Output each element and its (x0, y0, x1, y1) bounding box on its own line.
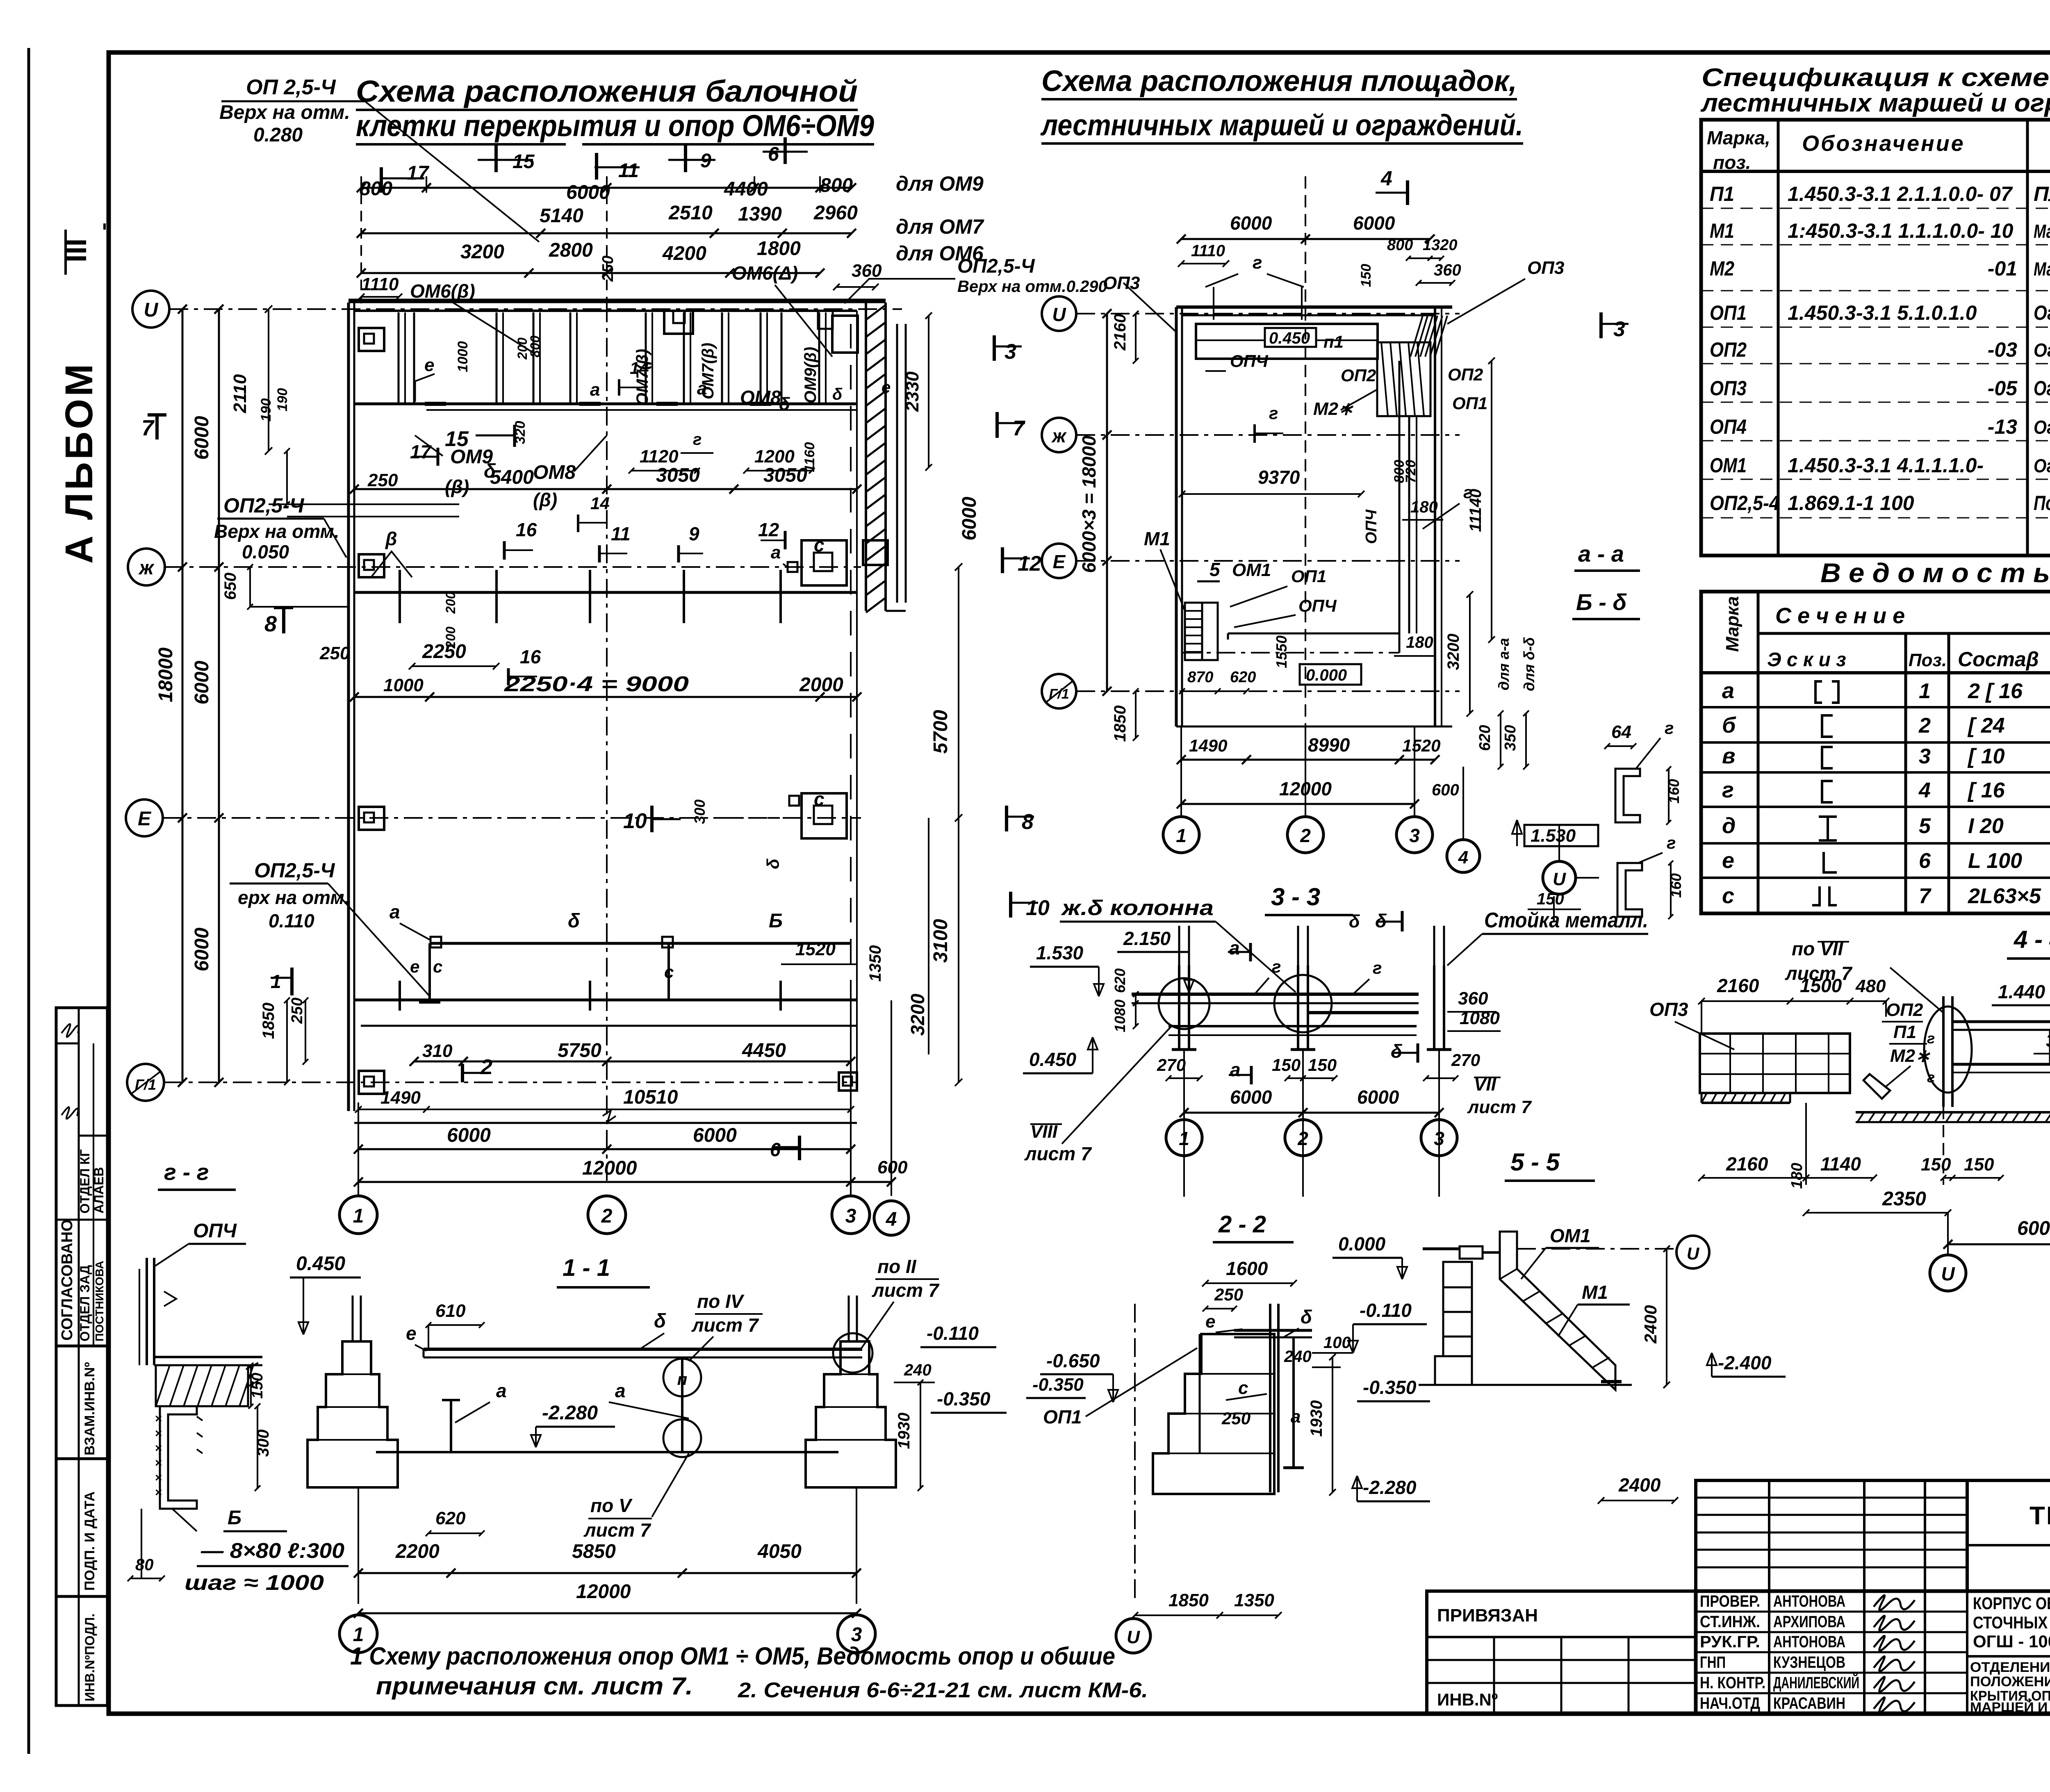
svg-text:(β): (β) (445, 476, 469, 497)
right wall hatched strip (865, 303, 867, 611)
svg-text:ОП1: ОП1 (1710, 301, 1747, 324)
stamp box ПОДП. И ДАТА (56, 1459, 107, 1596)
svg-text:П1: П1 (1710, 182, 1734, 205)
svg-text:Е: Е (138, 808, 152, 830)
svg-text:Б - δ: Б - δ (1576, 589, 1627, 615)
svg-text:для а-а: для а-а (1495, 638, 1512, 690)
svg-text:150: 150 (1272, 1055, 1301, 1075)
svg-text:1390: 1390 (738, 203, 782, 225)
svg-text:для ОМ9: для ОМ9 (896, 172, 984, 195)
svg-text:U: U (1052, 304, 1066, 325)
stair М1 lower left (1185, 603, 1202, 660)
svg-text:АНТОНОВА: АНТОНОВА (1773, 1592, 1845, 1610)
svg-text:1: 1 (353, 1205, 364, 1227)
svg-text:11140: 11140 (1467, 489, 1485, 532)
svg-text:КРАСАВИН: КРАСАВИН (1773, 1694, 1845, 1712)
svg-text:360: 360 (852, 261, 882, 281)
svg-text:г: г (1665, 718, 1674, 738)
svg-text:[ 24: [ 24 (1967, 714, 2005, 738)
girder under top bay (354, 403, 857, 405)
svg-text:3: 3 (1919, 745, 1931, 768)
svg-text:200: 200 (443, 592, 458, 614)
svg-text:270: 270 (1157, 1055, 1186, 1075)
svg-text:0.450: 0.450 (1029, 1049, 1077, 1070)
svg-text:1: 1 (1919, 679, 1931, 703)
svg-text:4400: 4400 (724, 178, 768, 200)
svg-text:64: 64 (1611, 722, 1631, 742)
svg-text:1520: 1520 (1402, 736, 1440, 755)
svg-text:СОГЛАСОВАНО: СОГЛАСОВАНО (59, 1219, 76, 1341)
svg-text:ОП3: ОП3 (1103, 273, 1140, 293)
svg-text:190: 190 (275, 388, 290, 412)
svg-text:д: д (1722, 813, 1736, 838)
svg-text:1200: 1200 (754, 446, 795, 467)
svg-text:лестничных маршей и ограждений: лестничных маршей и ограждений. (1700, 89, 2050, 117)
top dims middle plan (1181, 238, 1430, 240)
svg-text:Марка,: Марка, (1707, 127, 1770, 148)
svg-text:150: 150 (1921, 1154, 1951, 1175)
svg-text:11: 11 (611, 523, 631, 544)
svg-text:8990: 8990 (1308, 734, 1350, 756)
svg-text:×: × (155, 1441, 162, 1455)
column circles 1 2 3 4 (339, 1196, 377, 1234)
svg-text:а: а (590, 380, 600, 400)
svg-text:12: 12 (1018, 552, 1041, 576)
svg-text:Э с к и з: Э с к и з (1767, 649, 1846, 671)
svg-text:п: п (677, 1371, 687, 1389)
svg-text:(β): (β) (533, 489, 557, 510)
dim row 5400 3050 3050 (354, 488, 857, 490)
svg-text:ОП2: ОП2 (1341, 366, 1376, 385)
svg-text:2160: 2160 (1717, 975, 1759, 996)
г-г channel figure (146, 1258, 148, 1365)
svg-text:3100: 3100 (930, 919, 952, 963)
svg-text:3: 3 (1409, 825, 1420, 846)
svg-text:480: 480 (1855, 976, 1886, 996)
big column blocks right side mid (802, 540, 847, 585)
svg-text:250: 250 (319, 643, 350, 663)
svg-text:г: г (1927, 1069, 1935, 1086)
svg-text:ПОСТНИКОВА: ПОСТНИКОВА (93, 1261, 106, 1341)
title block TP cell (1967, 1480, 2050, 1591)
svg-text:ОПЧ: ОПЧ (1363, 509, 1380, 544)
svg-text:ОП3: ОП3 (1649, 999, 1688, 1020)
svg-text:КОРПУС ОБЕЗВОЖИВАНИЯ ОСАДКА: КОРПУС ОБЕЗВОЖИВАНИЯ ОСАДКА (1973, 1594, 2050, 1613)
svg-text:ПРОВЕР.: ПРОВЕР. (1700, 1592, 1760, 1610)
svg-text:180: 180 (1406, 633, 1433, 651)
svg-text:6: 6 (770, 1139, 781, 1160)
svg-text:4050: 4050 (757, 1541, 802, 1562)
svg-text:шаг ≈ 1000: шаг ≈ 1000 (184, 1571, 324, 1595)
svg-text:270: 270 (1451, 1050, 1480, 1070)
svg-text:1520: 1520 (795, 939, 836, 959)
svg-text:6000: 6000 (2017, 1218, 2050, 1239)
svg-text:0.000: 0.000 (1306, 666, 1347, 684)
svg-text:ОТДЕЛЕНИЕ ФЛОКУЛЯНТА.СХЕМА РАС: ОТДЕЛЕНИЕ ФЛОКУЛЯНТА.СХЕМА РАС- (1970, 1660, 2050, 1675)
svg-text:е: е (406, 1323, 417, 1344)
svg-text:7: 7 (141, 416, 155, 440)
svg-text:[ 16: [ 16 (1967, 779, 2005, 802)
svg-text:ОГШ - 1001 К- 01: ОГШ - 1001 К- 01 (1973, 1632, 2050, 1651)
svg-text:2110: 2110 (230, 374, 250, 413)
internal platform edge lower (1228, 633, 1399, 635)
svg-text:г: г (1927, 1030, 1935, 1047)
svg-text:2. Сечения 6-6÷21-21 см. лис: 2. Сечения 6-6÷21-21 см. лист КМ-6. (738, 1678, 1148, 1702)
svg-text:3: 3 (1434, 1128, 1444, 1149)
svg-text:0.000: 0.000 (1338, 1233, 1386, 1255)
2-2 foundation steps (1153, 1334, 1274, 1494)
svg-text:1350: 1350 (1234, 1590, 1274, 1610)
svg-text:2400: 2400 (1618, 1474, 1661, 1496)
svg-text:17: 17 (410, 441, 432, 462)
svg-text:ОМ9: ОМ9 (450, 446, 493, 468)
svg-text:лист 7: лист 7 (872, 1280, 940, 1301)
svg-text:300: 300 (691, 799, 708, 824)
svg-text:1490: 1490 (1189, 736, 1227, 755)
svg-text:Марка: Марка (1722, 596, 1742, 652)
svg-text:U: U (144, 299, 159, 321)
svg-text:-0.350: -0.350 (1363, 1377, 1417, 1398)
svg-text:150: 150 (1308, 1055, 1337, 1075)
svg-text:ОП1: ОП1 (1043, 1406, 1082, 1428)
svg-text:U: U (1553, 869, 1566, 889)
svg-text:АЛАЕВ: АЛАЕВ (91, 1167, 106, 1214)
svg-text:10510: 10510 (623, 1086, 678, 1108)
svg-text:2400: 2400 (1641, 1305, 1660, 1343)
svg-text:ОМ6(Δ): ОМ6(Δ) (732, 262, 798, 284)
svg-text:с: с (433, 957, 442, 976)
svg-text:6000: 6000 (566, 182, 610, 203)
svg-text:е: е (424, 355, 434, 375)
svg-text:ОП2: ОП2 (1886, 1000, 1923, 1020)
svg-text:Стойка металл.: Стойка металл. (1484, 909, 1648, 932)
svg-text:16: 16 (516, 519, 537, 540)
svg-text:9: 9 (689, 523, 699, 544)
svg-text:а: а (697, 378, 707, 398)
svg-text:6: 6 (1919, 849, 1931, 873)
svg-text:5700: 5700 (930, 710, 952, 754)
svg-text:1350: 1350 (866, 945, 884, 982)
middle bay beams at Ж (354, 591, 857, 594)
dim 2110 / 190 190 vertical (268, 309, 269, 451)
svg-text:×: × (155, 1486, 162, 1499)
svg-text:в: в (1722, 744, 1736, 768)
svg-text:1.450.3-3.1 5.1.0.1.0: 1.450.3-3.1 5.1.0.1.0 (1788, 301, 1977, 324)
svg-text:Обозначение: Обозначение (1802, 131, 1965, 156)
svg-text:240: 240 (1284, 1348, 1312, 1366)
svg-text:Марш лестничный МЛХШ45-24.8: Марш лестничный МЛХШ45-24.8 (2034, 221, 2050, 242)
svg-text:по II: по II (877, 1256, 917, 1277)
svg-text:8: 8 (264, 612, 277, 636)
svg-text:360: 360 (2046, 1031, 2050, 1051)
svg-text:с: с (814, 788, 825, 810)
beam row at 2468 (354, 999, 857, 1002)
svg-text:М2: М2 (1710, 257, 1734, 280)
svg-text:3200: 3200 (460, 241, 504, 263)
svg-text:1.450.3-3.1 2.1.1.0.0- 07: 1.450.3-3.1 2.1.1.0.0- 07 (1788, 182, 2013, 205)
svg-text:а: а (1291, 1407, 1301, 1427)
svg-text:ОП3: ОП3 (1527, 258, 1564, 278)
svg-text:1140: 1140 (1820, 1153, 1861, 1175)
svg-text:Верх на отм.: Верх на отм. (219, 102, 350, 123)
svg-text:1120: 1120 (640, 446, 679, 467)
top wall blocks (664, 311, 693, 334)
svg-text:для δ-δ: для δ-δ (1521, 637, 1537, 691)
svg-text:1320: 1320 (1423, 237, 1458, 254)
svg-text:ОМ8: ОМ8 (740, 387, 781, 408)
svg-text:ОМ1: ОМ1 (1550, 1225, 1591, 1246)
svg-text:1 - 1: 1 - 1 (563, 1255, 610, 1281)
svg-text:ж: ж (138, 557, 155, 579)
1-1 beam (424, 1348, 862, 1351)
middle plan walls (1175, 307, 1178, 726)
svg-text:5400: 5400 (490, 467, 534, 488)
svg-text:1000: 1000 (383, 675, 424, 695)
svg-text:ОТДЕЛ ЗАД: ОТДЕЛ ЗАД (77, 1265, 92, 1341)
svg-text:350: 350 (1502, 725, 1519, 751)
svg-text:L 100: L 100 (1968, 849, 2022, 873)
svg-text:2160: 2160 (1111, 314, 1129, 351)
svg-text:ОП 2,5-Ч: ОП 2,5-Ч (246, 75, 336, 99)
svg-text:10: 10 (623, 809, 647, 833)
svg-text:Спецификация к схеме располо: Спецификация к схеме расположения плошад… (1701, 64, 2050, 92)
svg-text:ОМ1: ОМ1 (1710, 454, 1747, 477)
svg-text:ж.δ колонна: ж.δ колонна (1060, 896, 1214, 920)
svg-text:ДАНИЛЕВСКИЙ: ДАНИЛЕВСКИЙ (1773, 1673, 1859, 1692)
svg-text:800: 800 (1387, 237, 1413, 254)
svg-text:250: 250 (599, 255, 617, 282)
svg-text:4: 4 (1380, 167, 1392, 190)
svg-text:×: × (155, 1412, 162, 1425)
svg-text:[ 10: [ 10 (1967, 745, 2005, 768)
middle plan circles 1 2 3 (1163, 817, 1199, 853)
grid vertical dim chains 18000 / 6000 (182, 309, 184, 1082)
svg-text:3: 3 (1004, 340, 1016, 364)
title block signatures (1874, 1595, 1915, 1610)
svg-text:190: 190 (258, 398, 274, 422)
svg-text:650: 650 (221, 573, 239, 600)
svg-text:ОП2,5-4: ОП2,5-4 (1710, 492, 1779, 515)
svg-text:Марш лестничный МЛХШ 45-6.8: Марш лестничный МЛХШ 45-6.8 (2034, 258, 2050, 280)
4-4 ground slab (1856, 1111, 2050, 1113)
svg-text:6: 6 (768, 143, 779, 165)
vedomost sketch glyphs (1815, 681, 1822, 703)
1-1 left foundation (307, 1341, 398, 1487)
svg-text:1: 1 (353, 1624, 364, 1646)
svg-text:6000: 6000 (191, 416, 213, 460)
svg-text:ИНВ.NºПОДЛ.: ИНВ.NºПОДЛ. (82, 1613, 97, 1701)
dim row 2250x4=9000 (354, 696, 857, 698)
dim row 6000 6000 (358, 1148, 851, 1150)
vertical line right platform strip (1408, 416, 1410, 633)
beam б-б lower (430, 942, 851, 945)
svg-text:2: 2 (601, 1205, 613, 1227)
svg-text:180: 180 (1410, 498, 1438, 516)
svg-text:240: 240 (904, 1361, 932, 1379)
svg-text:7: 7 (1919, 884, 1932, 908)
svg-text:9370: 9370 (1258, 467, 1300, 488)
svg-text:ОП4: ОП4 (1710, 415, 1747, 438)
svg-text:16: 16 (520, 646, 541, 667)
svg-text:3: 3 (851, 1624, 862, 1646)
svg-text:Б: Б (228, 1507, 241, 1529)
1-1 right foundation (806, 1341, 896, 1487)
svg-text:Схема расположения балочной: Схема расположения балочной (356, 74, 858, 108)
svg-text:а: а (1230, 1059, 1241, 1080)
svg-text:СТ.ИНЖ.: СТ.ИНЖ. (1700, 1613, 1760, 1631)
svg-text:14: 14 (590, 494, 610, 513)
svg-text:поз.: поз. (1713, 152, 1751, 173)
svg-text:ОП2,5-Ч: ОП2,5-Ч (223, 494, 305, 517)
svg-text:ОПЧ: ОПЧ (1298, 596, 1337, 615)
svg-text:ВЗАМ.ИНВ.Nº: ВЗАМ.ИНВ.Nº (82, 1362, 98, 1455)
svg-text:δ: δ (654, 1310, 666, 1332)
svg-text:ИНВ.Nº: ИНВ.Nº (1437, 1690, 1498, 1709)
svg-text:Н. КОНТР.: Н. КОНТР. (1700, 1674, 1765, 1692)
svg-text:1850: 1850 (1111, 706, 1129, 742)
svg-text:360: 360 (1458, 988, 1488, 1009)
svg-text:а: а (771, 542, 781, 562)
svg-text:3: 3 (845, 1205, 856, 1227)
platform П1 (1196, 324, 1378, 359)
svg-text:δ: δ (832, 385, 843, 403)
svg-text:2800: 2800 (549, 239, 593, 261)
svg-text:150: 150 (1964, 1154, 1994, 1175)
svg-text:ОТДЕЛ КГ: ОТДЕЛ КГ (77, 1149, 92, 1214)
svg-text:18000: 18000 (155, 647, 177, 702)
svg-text:Ограждение ОГПМХЭ Б-10.60: Ограждение ОГПМХЭ Б-10.60 (2034, 417, 2050, 438)
svg-text:ОП2,5-Ч: ОП2,5-Ч (957, 255, 1035, 277)
svg-text:×: × (155, 1456, 162, 1470)
svg-text:ерх на отм.: ерх на отм. (238, 887, 349, 908)
svg-text:Б: Б (769, 910, 783, 932)
svg-text:М1: М1 (1710, 219, 1734, 242)
svg-text:12000: 12000 (582, 1157, 637, 1179)
svg-text:М1: М1 (1144, 528, 1170, 549)
svg-text:δ: δ (568, 910, 580, 932)
title block project name (1966, 1591, 1968, 1714)
svg-text:10: 10 (1026, 896, 1050, 920)
svg-text:2 [ 16: 2 [ 16 (1968, 679, 2023, 703)
beam symbols on girder (425, 402, 446, 406)
svg-text:по IV: по IV (697, 1291, 745, 1312)
svg-text:δ: δ (779, 394, 790, 414)
svg-text:2250: 2250 (422, 641, 466, 663)
svg-text:5750: 5750 (558, 1040, 601, 1061)
svg-text:1930: 1930 (895, 1413, 913, 1449)
svg-text:ОП3: ОП3 (1710, 377, 1747, 400)
sheet outer trim line left (27, 48, 30, 1754)
svg-text:С е ч е н и е: С е ч е н и е (1775, 603, 1905, 628)
svg-text:1850: 1850 (1168, 1590, 1209, 1610)
svg-text:-0.350: -0.350 (1032, 1375, 1084, 1395)
svg-text:17: 17 (407, 162, 430, 184)
svg-text:Ограждение ОГПМХЭб-10.9: Ограждение ОГПМХЭб-10.9 (2034, 301, 2050, 324)
left stamp column boxes (56, 1008, 107, 1346)
svg-text:3200: 3200 (1444, 634, 1462, 670)
svg-text:Г/1: Г/1 (1049, 686, 1069, 702)
plan top wall (348, 299, 886, 303)
svg-text:1930: 1930 (1307, 1400, 1326, 1437)
svg-text:-0.110: -0.110 (1360, 1300, 1412, 1321)
svg-text:3050: 3050 (763, 465, 807, 486)
svg-text:1000: 1000 (455, 341, 471, 372)
svg-text:0.450: 0.450 (1269, 329, 1310, 347)
svg-text:1:450.3-3.1 1.1.1.0.0- 10: 1:450.3-3.1 1.1.1.0.0- 10 (1788, 219, 2014, 242)
svg-text:ОП2: ОП2 (1448, 365, 1483, 384)
svg-text:Ограждение ОГПМХЭБ-10.21: Ограждение ОГПМХЭБ-10.21 (2034, 377, 2050, 400)
svg-text:4: 4 (1918, 779, 1931, 802)
svg-text:ОМ9(β): ОМ9(β) (802, 347, 820, 403)
svg-text:ПОДП. И ДАТА: ПОДП. И ДАТА (82, 1491, 98, 1591)
svg-text:ПРИВЯЗАН: ПРИВЯЗАН (1437, 1605, 1538, 1626)
svg-text:примечания см. лист 7.: примечания см. лист 7. (376, 1672, 693, 1700)
svg-text:3050: 3050 (656, 465, 700, 486)
hatch top right corner (1410, 316, 1423, 357)
svg-text:6000: 6000 (1353, 212, 1395, 234)
svg-text:2000: 2000 (799, 674, 843, 696)
svg-text:5140: 5140 (540, 205, 583, 227)
svg-text:б: б (1722, 713, 1736, 738)
svg-text:ОП1: ОП1 (1291, 567, 1326, 586)
svg-text:14: 14 (630, 358, 649, 378)
grid axis lines left plan (169, 308, 902, 310)
svg-text:1080: 1080 (1112, 1000, 1128, 1032)
svg-text:5850: 5850 (572, 1541, 616, 1562)
svg-text:г: г (1269, 403, 1278, 423)
svg-text:11: 11 (618, 160, 639, 182)
svg-text:620: 620 (1112, 968, 1128, 993)
plan bottom lines (354, 1122, 857, 1124)
3-3 circles (1166, 1120, 1202, 1156)
svg-text:а: а (496, 1380, 507, 1401)
svg-text:Г/1: Г/1 (135, 1076, 156, 1093)
svg-text:600: 600 (1432, 781, 1459, 799)
svg-text:а: а (1722, 679, 1734, 703)
svg-text:1110: 1110 (361, 274, 399, 294)
svg-text:2510: 2510 (668, 202, 713, 224)
svg-text:ж: ж (1051, 425, 1067, 446)
4-4 bottom chain 6000 6000 (1948, 1243, 2050, 1246)
svg-text:2350: 2350 (1882, 1188, 1926, 1210)
svg-text:а - а: а - а (1578, 541, 1624, 567)
svg-text:Состаβ: Состаβ (1958, 648, 2039, 671)
svg-text:М1: М1 (1582, 1282, 1608, 1303)
1-1 floor line (376, 1451, 838, 1453)
svg-text:1.530: 1.530 (1036, 942, 1084, 963)
svg-text:ОП2: ОП2 (1710, 338, 1747, 361)
svg-text:2200: 2200 (395, 1541, 440, 1562)
grid axis circle Г/1 (127, 1064, 164, 1101)
svg-text:-0.350: -0.350 (937, 1388, 991, 1409)
5-5 stair figure (1500, 1232, 1615, 1390)
svg-text:-0.650: -0.650 (1046, 1350, 1100, 1371)
svg-text:250: 250 (1214, 1285, 1243, 1304)
svg-text:2: 2 (1918, 714, 1931, 738)
specification table grid (1701, 120, 2050, 556)
svg-text:250: 250 (1221, 1409, 1250, 1428)
2-2 axis line (1134, 1304, 1136, 1599)
svg-text:по V: по V (590, 1495, 633, 1516)
svg-text:ОП2,5-Ч: ОП2,5-Ч (254, 859, 335, 882)
1.530 flag and 150 (1524, 825, 1598, 846)
svg-text:а: а (389, 901, 400, 922)
svg-text:ОМ6(β): ОМ6(β) (410, 280, 475, 302)
svg-text:6000: 6000 (191, 660, 213, 704)
svg-text:Е: Е (1053, 551, 1066, 572)
dim row 310 5750 4450 (414, 1061, 851, 1063)
svg-text:1500: 1500 (1800, 975, 1842, 996)
